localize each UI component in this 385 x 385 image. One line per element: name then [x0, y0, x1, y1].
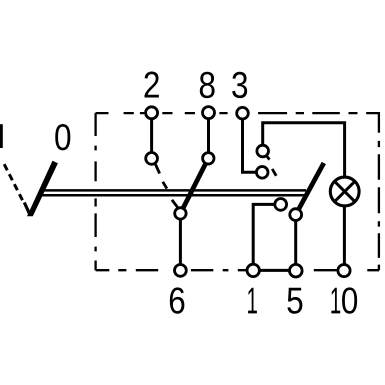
position marker | (left edge)	[0, 124, 3, 148]
housing border left edge (dash-dot)	[94, 113, 96, 270]
terminal 5	[290, 264, 303, 277]
open contact dash c (pole 2)	[172, 200, 178, 207]
wire terminal 3 to contact	[243, 113, 263, 172]
dashed lever position 0 line	[4, 164, 23, 201]
contact 5a	[290, 209, 302, 221]
contact 2a	[146, 153, 158, 165]
dashed lever line final segment joining lever foot	[24, 203, 29, 215]
label 10	[331, 287, 357, 313]
actuator bar lower line	[41, 194, 308, 197]
wire terminal 8 to contact	[207, 113, 210, 159]
contact 1a	[275, 199, 287, 211]
label 2	[145, 71, 159, 97]
label 6	[170, 287, 185, 313]
open contact dash a (pole 2)	[155, 163, 160, 174]
terminal 8	[203, 107, 215, 119]
switch lever	[27, 161, 58, 217]
terminal 6	[175, 265, 187, 277]
wire lamp to terminal 10	[343, 207, 346, 270]
wire contact to terminal 6	[179, 213, 182, 270]
open contact dash a (pole 3)	[266, 155, 270, 160]
open contact dash b (pole 2)	[163, 182, 167, 189]
housing border right edge (dash-dot)	[378, 112, 380, 270]
label 8	[200, 72, 215, 98]
lamp L	[330, 177, 359, 206]
label 1	[248, 288, 257, 314]
contact 6a	[175, 208, 186, 219]
housing border top edge (dash-dot)	[96, 112, 381, 114]
contact 3a	[256, 167, 268, 179]
open contact dash b (pole 3)	[272, 169, 276, 176]
moving contact blade 8-6 (closed)	[180, 158, 208, 213]
terminal 10	[338, 265, 350, 277]
wire terminal 1 to contact	[253, 204, 281, 270]
contact 8a	[203, 153, 214, 164]
actuator bar upper line	[43, 189, 306, 192]
moving contact blade 5 (open)	[296, 163, 324, 215]
wire contact to lamp	[263, 123, 345, 176]
housing border bottom edge (dash-dot)	[96, 269, 379, 271]
contact lamp side	[257, 145, 269, 157]
wire contact to terminal 5	[294, 215, 297, 271]
terminal 1	[247, 264, 259, 276]
label 3	[232, 72, 247, 98]
wire terminal 1 to terminal 5 (bottom)	[253, 269, 296, 272]
label 5	[287, 288, 302, 314]
label 0	[55, 124, 70, 150]
terminal 2	[146, 107, 158, 119]
wire terminal 2 to contact	[150, 113, 153, 159]
terminal 3	[237, 107, 249, 119]
